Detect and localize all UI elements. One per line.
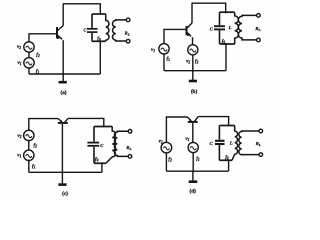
junction: base/ground (c) [61, 171, 63, 173]
wire: V2 to bottom rail (d) [165, 153, 167, 171]
tank top wire (d) [219, 125, 234, 127]
wire between sources [28, 52, 30, 57]
AC source V1 (b) [159, 44, 169, 54]
transformer primary L (a) [106, 14, 109, 41]
junction: tank bottom (a) [99, 40, 101, 42]
tank top wire (c) [94, 126, 112, 128]
AC source V1 (c) [24, 150, 34, 160]
junction: V2/ground [192, 70, 194, 72]
svg-text:C: C [100, 143, 104, 148]
wire: V1 to bottom rail (c) [28, 161, 30, 173]
top rail (b) [192, 3, 226, 12]
svg-text:v2: v2 [186, 59, 190, 64]
transistor Q3 [58, 118, 68, 172]
junction: V1/ground (d) [192, 170, 194, 172]
wire: tank bottom to rail (b) [225, 44, 227, 71]
wire source V1 to bottom rail [28, 68, 30, 74]
output terminal bottom (c) [128, 155, 132, 159]
wire: tank bottom to rail (c) [101, 163, 103, 172]
transformer secondary (a) [113, 20, 127, 41]
wire: Q1 collector to top rail [62, 4, 64, 26]
svg-text:v2: v2 [17, 45, 21, 50]
transformer secondary (d) [239, 131, 259, 155]
svg-text:(c): (c) [62, 190, 68, 197]
junction: collector/tank top (c) [103, 126, 105, 128]
bottom rail (c) [29, 171, 102, 173]
junction: rail/tank top (b) [225, 11, 227, 13]
ground (b) [189, 71, 197, 81]
wire: Q2 collector to top rail [191, 3, 193, 23]
svg-text:f1: f1 [196, 157, 200, 162]
AC source V2 (c) [24, 130, 34, 140]
svg-text:f1: f1 [167, 57, 171, 62]
AC source V2 (d) [161, 142, 172, 153]
svg-text:v1: v1 [17, 154, 21, 159]
svg-text:v1: v1 [185, 137, 189, 142]
tank top wire (b) [220, 11, 235, 13]
wire: V2 to bottom rail (b) [192, 55, 194, 71]
svg-text:f2: f2 [168, 157, 172, 162]
transformer primary (d) [232, 126, 238, 161]
svg-text:(a): (a) [60, 89, 66, 96]
svg-text:f1: f1 [32, 165, 36, 170]
junction: tank bottom (c) [101, 162, 103, 164]
junction: rail/tank top [99, 13, 101, 15]
wire: Q2 emitter to V2 [192, 37, 194, 45]
wire: tank bottom to rail (a) [99, 41, 101, 74]
svg-text:C: C [83, 28, 87, 33]
capacitor C (c) [87, 127, 99, 164]
transistor Q2 [187, 23, 193, 36]
output terminal top (d) [259, 129, 263, 133]
svg-text:v2: v2 [159, 139, 163, 144]
transformer primary (b) [235, 12, 239, 44]
tank bottom wire (d) [219, 159, 232, 161]
svg-text:f2: f2 [195, 59, 199, 64]
bottom rail (b) [164, 70, 226, 72]
top rail (a) [63, 4, 101, 14]
wire: Q3 collector to tank (c) [68, 118, 104, 126]
transistor Q1 [57, 26, 63, 40]
tank top wire (a) [92, 13, 106, 15]
svg-text:RL: RL [126, 145, 131, 151]
svg-text:v1: v1 [151, 48, 155, 53]
AC source V2 [24, 42, 34, 52]
ground (a) [59, 74, 67, 82]
svg-text:f2: f2 [34, 144, 38, 149]
wire: tank bottom to rail (d) [228, 160, 230, 171]
svg-text:v2: v2 [17, 134, 21, 139]
transformer primary (c) [106, 127, 116, 164]
bottom rail (d) [166, 170, 228, 172]
wire: Q4 collector to tank (d) [198, 117, 228, 126]
transformer secondary (c) [114, 131, 128, 156]
wire between sources (c) [28, 141, 30, 151]
capacitor C (b) [214, 12, 225, 44]
svg-text:RL: RL [255, 26, 260, 32]
wire: sources to Q1 base [29, 34, 56, 42]
output terminal bottom (a) [126, 39, 130, 43]
bottom rail (a) [29, 73, 100, 75]
AC source V2 (b) [188, 45, 198, 55]
svg-text:f2: f2 [36, 53, 40, 58]
ground (d) [189, 171, 198, 182]
svg-text:(b): (b) [191, 88, 198, 95]
output terminal top (b) [257, 14, 261, 18]
svg-text:L: L [229, 140, 233, 145]
svg-text:C: C [210, 26, 214, 31]
output terminal top (c) [128, 130, 132, 134]
tank bottom wire (b) [220, 43, 235, 45]
transformer secondary (b) [238, 15, 256, 40]
tank bottom wire (a) [92, 40, 106, 42]
ground (c) [58, 172, 66, 184]
AC source V1 (d) [188, 142, 198, 152]
svg-text:RL: RL [125, 30, 130, 36]
wire: Q1 emitter to bottom rail [62, 40, 64, 74]
AC source V1 [24, 58, 34, 68]
output terminal bottom (b) [257, 38, 261, 42]
svg-text:C: C [210, 141, 214, 146]
svg-text:f0: f0 [95, 157, 99, 162]
capacitor C (a) [87, 14, 98, 41]
svg-text:L: L [228, 25, 232, 30]
junction: tank bottom (b) [225, 43, 227, 45]
svg-text:v1: v1 [17, 61, 21, 66]
junction: emitter/ground [62, 73, 64, 75]
junction: collector/tank top (d) [228, 124, 230, 126]
output terminal bottom (d) [259, 153, 263, 157]
wire: V1 to Q2 base [164, 29, 186, 43]
wire: sources to Q3 emitter [29, 119, 58, 131]
transistor Q4 [187, 117, 198, 143]
tank bottom wire (c) [94, 162, 106, 164]
svg-text:RL: RL [256, 141, 261, 147]
wire: V2 to Q4 emitter [166, 117, 187, 142]
svg-text:(d): (d) [190, 187, 197, 194]
output terminal top (a) [126, 18, 130, 22]
capacitor C (d) [215, 126, 225, 161]
wire: V1 to bottom rail (d) [192, 153, 194, 172]
wire: V1 to bottom rail (b) [163, 54, 165, 71]
junction: tank bottom (d) [228, 159, 230, 161]
